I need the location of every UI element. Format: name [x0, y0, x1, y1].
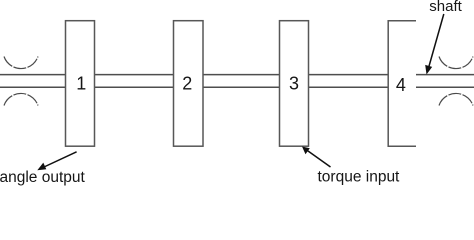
right bearing lower arc — [439, 93, 473, 105]
svg-text:4: 4 — [396, 75, 406, 95]
left bearing upper arc — [4, 57, 38, 69]
shaft upper line — [0, 74, 474, 76]
disk 4 (open right side) — [388, 21, 416, 147]
left bearing lower arc — [4, 93, 38, 105]
angle output pointer arrow — [37, 152, 76, 170]
svg-text:shaft: shaft — [429, 0, 462, 15]
torque input pointer arrow — [302, 147, 331, 168]
svg-text:torque input: torque input — [318, 169, 401, 186]
right bearing upper arc — [439, 57, 473, 69]
svg-text:3: 3 — [289, 73, 299, 93]
disk 2 — [174, 21, 204, 147]
disk 1 — [66, 21, 95, 147]
svg-text:angle output: angle output — [0, 169, 86, 186]
shaft lower line — [0, 86, 474, 88]
svg-text:2: 2 — [182, 73, 192, 93]
svg-text:1: 1 — [76, 73, 86, 93]
disk 3 — [280, 21, 309, 147]
shaft pointer arrow — [425, 14, 444, 75]
